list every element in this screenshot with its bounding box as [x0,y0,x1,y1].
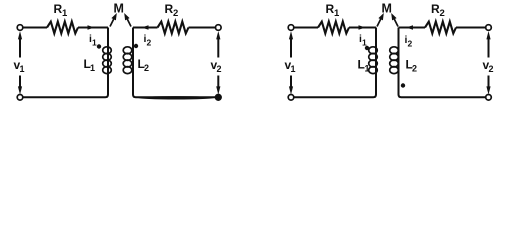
svg-text:2: 2 [144,63,149,73]
svg-text:M: M [114,2,124,16]
svg-text:2: 2 [408,39,413,49]
svg-text:1: 1 [92,38,97,48]
svg-text:2: 2 [412,64,417,74]
svg-text:1: 1 [365,64,370,74]
svg-text:1: 1 [291,64,296,74]
svg-text:1: 1 [20,64,25,74]
svg-text:1: 1 [90,63,95,73]
svg-text:2: 2 [440,8,445,19]
svg-text:1: 1 [334,8,340,19]
svg-text:2: 2 [147,38,152,48]
svg-text:2: 2 [217,64,222,74]
svg-text:2: 2 [489,64,494,74]
svg-text:1: 1 [62,8,68,19]
svg-text:2: 2 [173,8,178,19]
svg-text:M: M [382,2,392,16]
svg-text:1: 1 [362,38,367,48]
